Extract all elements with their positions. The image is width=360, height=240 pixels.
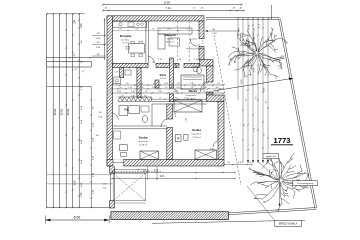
svg-text:3 m törzsmagasság: 3 m törzsmagasság: [297, 182, 314, 185]
svg-text:1.05: 1.05: [114, 72, 118, 74]
svg-text:4.2 m²: 4.2 m²: [160, 77, 166, 80]
svg-text:15.01: 15.01: [60, 108, 64, 115]
svg-text:9.6 m²: 9.6 m²: [122, 42, 128, 45]
svg-text:10.58 m²: 10.58 m²: [187, 97, 196, 100]
svg-text:.90: .90: [207, 64, 210, 66]
svg-text:1773: 1773: [274, 136, 291, 145]
svg-text:.75: .75: [159, 97, 162, 99]
svg-text:12.48 m²: 12.48 m²: [139, 143, 148, 146]
svg-text:ERESZ VONALA: ERESZ VONALA: [279, 223, 298, 226]
svg-text:1.73: 1.73: [80, 192, 83, 197]
svg-text:.90: .90: [119, 87, 122, 89]
svg-text:.90: .90: [217, 83, 220, 85]
svg-text:.10: .10: [153, 83, 156, 85]
svg-text:3.65: 3.65: [135, 28, 139, 30]
svg-text:12.26: 12.26: [264, 87, 266, 93]
svg-text:2.00: 2.00: [158, 91, 162, 93]
svg-text:1.40: 1.40: [131, 91, 135, 93]
svg-text:5.00: 5.00: [74, 216, 81, 220]
svg-text:Konyha: Konyha: [120, 34, 132, 38]
svg-text:étkező: étkező: [167, 37, 174, 40]
svg-text:10.18: 10.18: [143, 170, 149, 172]
svg-text:13.56 m²: 13.56 m²: [192, 136, 201, 139]
svg-text:.30: .30: [249, 162, 252, 164]
svg-text:15.01: 15.01: [53, 108, 57, 115]
svg-text:1.10: 1.10: [204, 83, 208, 85]
svg-text:.05: .05: [141, 87, 144, 89]
svg-text:1.90: 1.90: [118, 28, 122, 30]
svg-text:2.30: 2.30: [190, 83, 194, 85]
svg-text:7.24: 7.24: [165, 6, 171, 10]
svg-text:9.04: 9.04: [160, 176, 165, 178]
svg-text:1.40: 1.40: [203, 87, 207, 89]
svg-text:Fü.: Fü.: [124, 108, 128, 112]
svg-text:1.90: 1.90: [80, 23, 83, 28]
svg-text:26.84 m²: 26.84 m²: [166, 41, 175, 44]
svg-text:12.26: 12.26: [241, 79, 243, 85]
svg-text:2.80: 2.80: [188, 91, 192, 93]
svg-text:.30: .30: [227, 162, 230, 164]
svg-text:.90: .90: [191, 87, 194, 89]
svg-text:8.28: 8.28: [164, 1, 170, 5]
svg-text:1.00: 1.00: [176, 87, 180, 89]
svg-text:1.20: 1.20: [215, 91, 219, 93]
svg-text:.10: .10: [145, 91, 148, 93]
svg-text:.90: .90: [152, 28, 155, 30]
svg-text:ker.felsz.: ker.felsz.: [121, 38, 130, 41]
svg-text:1.15: 1.15: [194, 59, 198, 61]
svg-text:ágyásó sáv: ágyásó sáv: [266, 156, 276, 158]
svg-text:.05: .05: [115, 83, 118, 85]
svg-text:1.20: 1.20: [131, 95, 135, 97]
svg-text:2.05: 2.05: [139, 83, 143, 85]
svg-text:1.10: 1.10: [128, 87, 132, 89]
svg-text:1.00: 1.00: [218, 99, 222, 101]
svg-text:Szoba: Szoba: [139, 136, 148, 140]
svg-text:Közl.: Közl.: [160, 73, 167, 77]
svg-text:2.30: 2.30: [152, 87, 156, 89]
svg-text:.10: .10: [165, 87, 168, 89]
svg-text:2.65: 2.65: [238, 162, 242, 164]
svg-text:1.00: 1.00: [173, 91, 177, 93]
svg-text:Nappali: Nappali: [164, 33, 175, 37]
svg-text:1.58: 1.58: [117, 91, 121, 93]
svg-text:.85: .85: [179, 59, 182, 61]
svg-text:.60: .60: [216, 87, 219, 89]
svg-text:1.00: 1.00: [164, 83, 168, 85]
svg-text:1.54: 1.54: [74, 19, 77, 24]
svg-text:2.50: 2.50: [74, 180, 77, 185]
svg-text:lak.parterm: lak.parterm: [138, 140, 149, 143]
svg-text:2.10: 2.10: [158, 59, 162, 61]
svg-text:lak.parterm: lak.parterm: [191, 132, 202, 135]
svg-text:.90: .90: [175, 97, 178, 99]
svg-text:1.05: 1.05: [184, 97, 188, 99]
svg-text:.60: .60: [144, 95, 147, 97]
svg-text:.90: .90: [128, 68, 131, 70]
svg-text:.40: .40: [121, 95, 124, 97]
svg-text:.90: .90: [152, 62, 155, 64]
svg-text:.05: .05: [177, 83, 180, 85]
svg-text:15.01: 15.01: [66, 108, 70, 115]
svg-text:.90: .90: [126, 83, 129, 85]
svg-text:2.05: 2.05: [167, 28, 171, 30]
svg-text:Szoba: Szoba: [192, 128, 201, 132]
svg-text:.90: .90: [203, 91, 206, 93]
